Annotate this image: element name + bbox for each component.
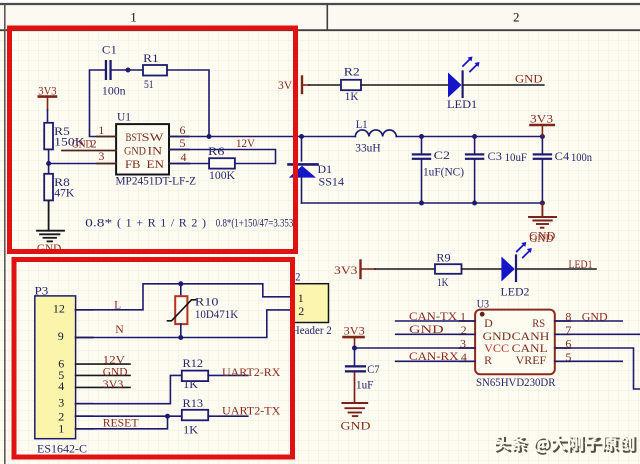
svg-text:3V3: 3V3 bbox=[530, 111, 553, 125]
svg-text:RESET: RESET bbox=[103, 416, 139, 430]
wire U3 pin3 VCC from 3V3 bbox=[355, 347, 476, 349]
ground (earth under C7) bbox=[342, 403, 367, 416]
svg-text:LED2: LED2 bbox=[501, 284, 530, 298]
svg-text:0.8*: 0.8* bbox=[85, 216, 112, 230]
wire U3 pin4 CAN-RX bbox=[396, 360, 475, 362]
svg-text:R9: R9 bbox=[436, 250, 450, 264]
svg-text:6: 6 bbox=[180, 123, 186, 137]
node C7/VCC junction bbox=[352, 346, 357, 351]
svg-text:3V3: 3V3 bbox=[334, 263, 358, 277]
power port 3V3 at C7 bbox=[344, 324, 365, 348]
node SW/D1 bbox=[299, 134, 304, 139]
svg-text:GND: GND bbox=[72, 137, 93, 151]
svg-text:51: 51 bbox=[144, 77, 154, 91]
op-amp U3 SN65HVD230DR body bbox=[475, 297, 555, 390]
LED LED2 bbox=[501, 242, 532, 298]
node C4 bottom bbox=[540, 201, 545, 206]
wire U1 EN pin to R6 bbox=[169, 163, 209, 165]
svg-text:1uF: 1uF bbox=[356, 378, 374, 392]
node C2 top bbox=[419, 134, 424, 139]
svg-text:SW: SW bbox=[142, 130, 165, 144]
sheet border top line bbox=[0, 3, 640, 5]
wire P3 pin3 to R12 bbox=[76, 375, 182, 403]
U1 pin numbers bbox=[91, 123, 187, 164]
svg-text:1K: 1K bbox=[437, 275, 449, 289]
U1 pin 5 stub bbox=[169, 149, 189, 151]
wire R8 to ground bbox=[48, 200, 50, 230]
svg-text:C1: C1 bbox=[102, 43, 117, 57]
svg-text:L: L bbox=[114, 297, 121, 311]
P3 pin6 12V stub bbox=[76, 363, 130, 365]
node R10 top bbox=[178, 281, 183, 286]
resistor R8 bbox=[44, 174, 74, 201]
LED LED1 bbox=[447, 57, 480, 112]
bottom rail D1 to ground bbox=[302, 202, 543, 204]
svg-text:GND: GND bbox=[409, 322, 444, 336]
svg-text:UART2-RX: UART2-RX bbox=[222, 365, 281, 379]
wire R1 to SW node bbox=[167, 70, 209, 137]
wire C1 to R1 bbox=[112, 69, 143, 71]
P3 pin4 3V3 stub bbox=[76, 386, 130, 388]
svg-text:1: 1 bbox=[130, 10, 137, 25]
wire L1 to C2/C3/C4 rail bbox=[396, 136, 542, 138]
svg-text:33uH: 33uH bbox=[355, 141, 381, 155]
svg-text:1: 1 bbox=[298, 291, 304, 305]
svg-text:FB: FB bbox=[125, 157, 141, 171]
U3 pin stubs bbox=[460, 321, 571, 361]
node RESET junction bbox=[165, 414, 170, 419]
connector Header 2 body bbox=[290, 269, 332, 337]
svg-text:5: 5 bbox=[180, 136, 186, 150]
resistor R9 bbox=[435, 250, 462, 289]
svg-text:MP2451DT-LF-Z: MP2451DT-LF-Z bbox=[116, 174, 197, 188]
sheet border inner line bbox=[0, 29, 640, 31]
svg-text:L1: L1 bbox=[356, 117, 368, 131]
wire 3V3 to R9 bbox=[375, 268, 435, 270]
wire P3 pin9 N net to header bbox=[76, 310, 292, 338]
P3 pin5 GND stub bbox=[76, 374, 130, 376]
svg-text:R12: R12 bbox=[183, 356, 204, 370]
svg-text:GND: GND bbox=[515, 72, 543, 86]
resistor R12 bbox=[182, 356, 208, 391]
U1 pin 6 stub bbox=[169, 136, 189, 138]
connector P3 ES1642-C body bbox=[35, 284, 88, 456]
svg-text:U1: U1 bbox=[117, 110, 131, 124]
svg-text:1: 1 bbox=[98, 123, 104, 137]
svg-text:EN: EN bbox=[147, 157, 165, 171]
svg-text:12V: 12V bbox=[236, 136, 255, 150]
wire U1 SW pin to D1/L1 bbox=[169, 136, 355, 138]
capacitor C1 bbox=[102, 43, 126, 98]
svg-text:10uF: 10uF bbox=[505, 150, 528, 164]
svg-text:VREF: VREF bbox=[516, 353, 547, 367]
svg-text:C2: C2 bbox=[434, 148, 450, 162]
wire P3 pin12 L net to header bbox=[76, 284, 292, 310]
capacitor C3 bbox=[465, 137, 527, 204]
wire R9 to LED2 bbox=[462, 268, 502, 270]
svg-text:P3: P3 bbox=[35, 284, 49, 298]
diode D1 SS14 bbox=[289, 137, 345, 204]
svg-text:R6: R6 bbox=[208, 144, 225, 158]
svg-text:Header 2: Header 2 bbox=[292, 323, 332, 337]
svg-text:SS14: SS14 bbox=[319, 175, 345, 189]
svg-text:1K: 1K bbox=[345, 89, 359, 103]
node C4 top bbox=[540, 134, 545, 139]
svg-text:4: 4 bbox=[58, 379, 64, 393]
svg-text:BST: BST bbox=[126, 130, 143, 144]
wire P3 pin2 to R13 bbox=[76, 415, 182, 417]
power port 3V3 for LED1 row bbox=[278, 77, 309, 94]
watermark face bbox=[494, 434, 634, 452]
wire LED1 to GND label bbox=[464, 84, 544, 86]
svg-text:GND: GND bbox=[341, 418, 371, 432]
wire 3V3 to R2 bbox=[309, 84, 341, 86]
svg-text:1K: 1K bbox=[183, 377, 198, 391]
resistor R13 bbox=[182, 396, 208, 436]
svg-text:IN: IN bbox=[148, 144, 163, 158]
highlight box 2 (AC input connector) bbox=[14, 260, 293, 458]
sheet border left line bbox=[4, 4, 6, 464]
ground (earth under C4) bbox=[529, 203, 556, 228]
svg-text:47K: 47K bbox=[54, 185, 74, 199]
capacitor C2 bbox=[412, 137, 464, 204]
highlight box 1 (buck converter) bbox=[10, 28, 296, 252]
wire LED2 to LED1 label bbox=[517, 268, 596, 270]
svg-text:9: 9 bbox=[58, 329, 64, 343]
wire R13 to UART2-TX bbox=[208, 415, 248, 417]
svg-text:R13: R13 bbox=[183, 396, 204, 410]
node C1/R1 bbox=[126, 68, 131, 73]
wire U3 pin2 GND bbox=[396, 333, 475, 335]
wire R5 to R8 bbox=[48, 149, 50, 173]
wire U3 pin6 CANL bbox=[555, 348, 640, 389]
svg-text:GND: GND bbox=[124, 144, 146, 158]
wire U1 IN pin loop to R6 bbox=[169, 150, 276, 164]
wire C1 left leg bbox=[90, 70, 117, 137]
ground (power ground under R8) bbox=[37, 231, 64, 242]
svg-text:RS: RS bbox=[532, 316, 545, 330]
wire 3V3 to R5 bbox=[47, 110, 49, 123]
U1 pin names bbox=[124, 130, 164, 171]
svg-text:C4: C4 bbox=[555, 149, 570, 163]
svg-text:3V3: 3V3 bbox=[103, 377, 124, 391]
power port 3V3 for LED2 row bbox=[334, 261, 375, 279]
inductor L1 bbox=[355, 117, 396, 155]
svg-text:100K: 100K bbox=[209, 168, 235, 182]
svg-text:LED1: LED1 bbox=[447, 97, 477, 111]
U1 pin 2 GND stub bbox=[62, 150, 116, 152]
P3 pin stubs bbox=[76, 310, 93, 429]
wire R12 to UART2-RX bbox=[208, 374, 248, 376]
P3 pin numbers bbox=[53, 301, 65, 435]
node C3 bottom bbox=[472, 201, 477, 206]
svg-text:3: 3 bbox=[58, 396, 64, 410]
svg-text:R: R bbox=[484, 353, 492, 367]
varistor R10 10D471K bbox=[168, 284, 239, 338]
svg-text:D: D bbox=[484, 316, 493, 330]
node C3 top bbox=[472, 134, 477, 139]
watermark shadow bbox=[496, 437, 637, 455]
resistor R1 bbox=[143, 51, 167, 91]
svg-text:CAN-TX: CAN-TX bbox=[409, 309, 457, 323]
wire junction to U1 FB pin bbox=[49, 163, 117, 165]
resistor R5 bbox=[44, 123, 85, 150]
wire U3 pin5 VREF bbox=[555, 360, 622, 362]
wire P3 pin1 RESET riser bbox=[76, 416, 168, 429]
U1 pin 1 stub bbox=[97, 136, 116, 138]
svg-text:1: 1 bbox=[58, 421, 64, 435]
svg-text:1uF(NC): 1uF(NC) bbox=[423, 164, 464, 178]
Header 2 pin numbers bbox=[298, 291, 304, 318]
node R5/R8/FB junction bbox=[46, 161, 51, 166]
svg-text:UART2-TX: UART2-TX bbox=[222, 404, 281, 418]
svg-text:2: 2 bbox=[513, 10, 520, 25]
svg-text:N: N bbox=[115, 322, 124, 336]
U1 pin 4 stub bbox=[169, 163, 189, 165]
svg-text:100n: 100n bbox=[571, 150, 592, 164]
wire U3 pin1 CAN-TX bbox=[396, 320, 475, 322]
U3 pin names bbox=[483, 316, 550, 367]
wire U3 pin7 CANH bbox=[555, 333, 640, 335]
svg-text:CAN-RX: CAN-RX bbox=[409, 349, 459, 363]
svg-text:R2: R2 bbox=[344, 65, 360, 79]
capacitor C7 bbox=[345, 348, 380, 403]
capacitor C4 bbox=[533, 137, 592, 204]
svg-text:GND: GND bbox=[582, 310, 608, 324]
svg-text:ES1642-C: ES1642-C bbox=[37, 441, 87, 455]
wire U3 pin8 RS bbox=[555, 320, 622, 322]
svg-text:SN65HVD230DR: SN65HVD230DR bbox=[476, 375, 556, 389]
resistor R2 bbox=[341, 65, 361, 103]
svg-text:10D471K: 10D471K bbox=[195, 307, 239, 321]
svg-text:C7: C7 bbox=[367, 362, 379, 376]
svg-text:0.8*(1+150/47=3.353: 0.8*(1+150/47=3.353 bbox=[216, 216, 293, 230]
node SW/R1 bbox=[207, 134, 212, 139]
svg-text:R1: R1 bbox=[143, 51, 159, 65]
power port 3V3 above C4 bbox=[530, 111, 554, 136]
resistor R6 bbox=[208, 144, 235, 182]
svg-text:(1+R1/R2): (1+R1/R2) bbox=[117, 216, 206, 230]
svg-text:3V3: 3V3 bbox=[344, 324, 365, 338]
power port 3V3 (left, above R5) bbox=[38, 84, 56, 110]
svg-text:C3: C3 bbox=[488, 149, 503, 163]
svg-text:100n: 100n bbox=[102, 83, 126, 97]
svg-text:12: 12 bbox=[53, 301, 65, 315]
svg-text:LED1: LED1 bbox=[569, 257, 593, 271]
wire R2 to LED1 bbox=[361, 84, 448, 86]
U1 pin 3 stub bbox=[97, 163, 116, 165]
svg-text:4: 4 bbox=[181, 150, 187, 164]
node C2 bottom bbox=[419, 201, 424, 206]
svg-text:2: 2 bbox=[298, 304, 304, 318]
op-amp U1 MP2451DT-LF-Z body bbox=[116, 110, 197, 188]
U3 pin numbers bbox=[460, 310, 571, 364]
svg-text:GND: GND bbox=[529, 231, 553, 245]
sheet zone divider bbox=[326, 4, 328, 30]
node R10 bottom bbox=[178, 335, 183, 340]
svg-text:U3: U3 bbox=[477, 297, 489, 311]
svg-text:1K: 1K bbox=[183, 422, 198, 436]
